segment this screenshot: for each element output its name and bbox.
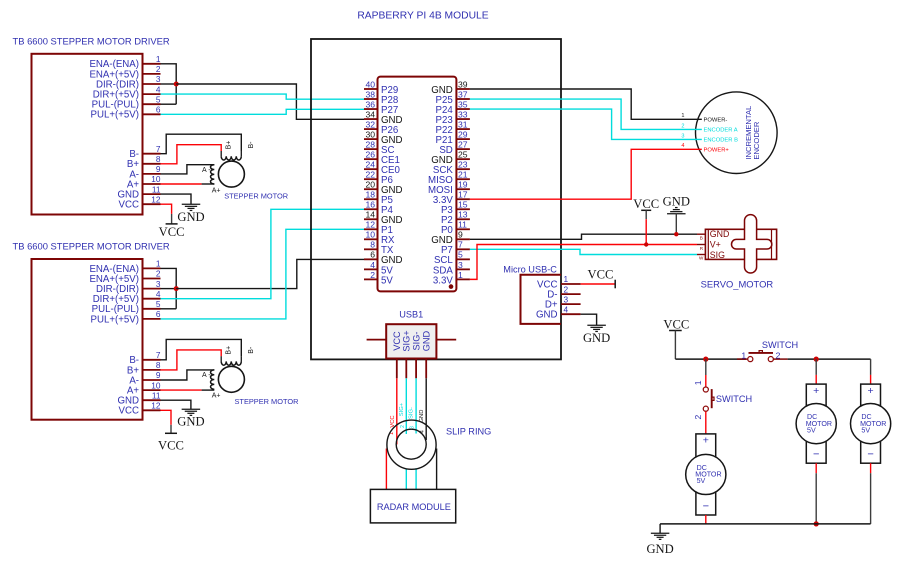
svg-text:26: 26	[365, 150, 375, 160]
svg-text:8: 8	[156, 360, 161, 370]
svg-text:VCC: VCC	[633, 197, 659, 211]
svg-text:3: 3	[156, 279, 161, 289]
svg-text:4: 4	[370, 260, 375, 270]
power VCC symbol below driver2	[158, 433, 184, 452]
svg-text:SIG: SIG	[710, 250, 725, 260]
TB 6600 stepper motor driver U2 body	[32, 54, 143, 215]
svg-text:22: 22	[365, 170, 375, 180]
svg-text:RADAR MODULE: RADAR MODULE	[377, 502, 451, 512]
svg-text:2: 2	[693, 414, 703, 419]
svg-text:1: 1	[741, 350, 746, 360]
junction driver1 pin3	[174, 82, 179, 87]
DC motor M2 5V	[796, 384, 836, 463]
svg-text:VCC: VCC	[119, 200, 139, 211]
svg-text:2: 2	[681, 123, 684, 129]
ground symbol above servo (inverted earth)	[663, 195, 690, 235]
svg-text:9: 9	[458, 230, 463, 240]
wire slip ring to radar module VCC (red)	[385, 449, 387, 490]
svg-text:9: 9	[156, 164, 161, 174]
wire driver2 pin3 to Pi chip pin6 GND	[176, 259, 364, 288]
wire down to motor2	[815, 359, 817, 384]
svg-text:+: +	[813, 385, 819, 397]
svg-text:13: 13	[458, 210, 468, 220]
svg-text:VCC: VCC	[587, 268, 613, 282]
svg-text:5: 5	[156, 94, 161, 104]
svg-text:ENCODER B: ENCODER B	[704, 138, 739, 144]
switch SW1 push button	[737, 340, 798, 362]
svg-text:TB 6600 STEPPER MOTOR DRIVER: TB 6600 STEPPER MOTOR DRIVER	[13, 241, 170, 252]
wire stepper B coil feeds	[161, 339, 242, 370]
svg-text:32: 32	[365, 119, 375, 129]
svg-text:+: +	[703, 435, 709, 447]
inductor coil A of stepper motor	[202, 370, 220, 400]
svg-text:24: 24	[365, 160, 375, 170]
incremental encoder body circle	[696, 92, 778, 174]
svg-text:5V: 5V	[697, 477, 706, 485]
junction driver2 pin3	[174, 286, 179, 291]
svg-text:GND: GND	[710, 229, 730, 239]
svg-text:1: 1	[156, 259, 161, 269]
svg-text:TB 6600 STEPPER MOTOR DRIVER: TB 6600 STEPPER MOTOR DRIVER	[13, 36, 170, 47]
svg-text:ENCODER A: ENCODER A	[704, 128, 738, 134]
wire driver2 pins 1-3-5 bus	[161, 268, 177, 308]
wire driver1 pin11 to ground	[161, 194, 192, 204]
svg-text:ENCODER: ENCODER	[752, 121, 761, 159]
svg-text:21: 21	[458, 170, 468, 180]
svg-text:VCC: VCC	[159, 225, 185, 239]
svg-text:GND: GND	[583, 331, 610, 345]
svg-text:GND: GND	[536, 310, 558, 321]
raspberry pi 4B module outer box	[311, 39, 561, 359]
switch SW2 push button (vertical)	[693, 380, 752, 419]
power VCC symbol top of motor circuit	[663, 318, 689, 359]
svg-text:SWITCH: SWITCH	[716, 394, 752, 404]
svg-text:23: 23	[458, 160, 468, 170]
svg-text:7: 7	[156, 350, 161, 360]
power VCC symbol above servo	[633, 197, 659, 244]
micro USB-C connector body	[521, 275, 562, 324]
svg-text:SERVO_MOTOR: SERVO_MOTOR	[701, 279, 774, 290]
svg-text:15: 15	[458, 200, 468, 210]
svg-text:POWER-: POWER-	[704, 118, 728, 124]
svg-text:7: 7	[458, 240, 463, 250]
wire micro USB-C pin4 to ground	[581, 314, 597, 325]
svg-text:VCC: VCC	[392, 331, 402, 351]
stepper motor rotor circle	[218, 161, 244, 187]
wire driver2 pin12 to VCC	[161, 410, 172, 433]
svg-text:39: 39	[458, 79, 468, 89]
svg-text:GND: GND	[646, 542, 673, 556]
svg-text:4: 4	[564, 304, 569, 314]
svg-text:POWER+: POWER+	[704, 148, 730, 154]
radar module box	[370, 489, 455, 523]
junction switch SW2 branch	[703, 357, 708, 362]
svg-text:B-: B-	[248, 141, 255, 149]
svg-text:1: 1	[564, 274, 569, 284]
svg-text:11: 11	[152, 184, 161, 194]
svg-text:Micro USB-C: Micro USB-C	[503, 265, 557, 275]
svg-text:B: B	[700, 236, 703, 241]
svg-text:1: 1	[458, 270, 463, 280]
svg-text:7: 7	[156, 144, 161, 154]
svg-text:19: 19	[458, 180, 468, 190]
wire slip ring to radar module GND (black)	[436, 449, 438, 490]
svg-text:10: 10	[151, 380, 161, 390]
micro USB-C pins and labels	[536, 274, 581, 320]
svg-text:6: 6	[156, 309, 161, 319]
svg-text:2: 2	[776, 350, 781, 360]
svg-text:B-: B-	[248, 346, 255, 354]
wire driver1 pin4 to Pi chip pin38 P28 (cyan)	[161, 94, 365, 99]
wire stepper A coil feeds	[161, 370, 215, 390]
wire chip pin1 3.3V to servo V+ (red)	[470, 245, 697, 280]
svg-text:−: −	[867, 449, 873, 461]
junction servo GND wire	[674, 232, 678, 236]
svg-text:USB1: USB1	[399, 309, 423, 319]
ground symbol bottom left of motor circuit	[646, 533, 673, 556]
wire driver1 pins 1-3-5 bus	[161, 64, 177, 104]
wire chip pin7 P7 to servo SIG (cyan)	[470, 249, 697, 254]
power VCC symbol right of micro USB-C	[587, 268, 615, 289]
svg-text:5V: 5V	[861, 426, 870, 434]
wire chip pin9 GND to servo GND	[470, 234, 697, 239]
svg-text:STEPPER MOTOR: STEPPER MOTOR	[235, 397, 299, 406]
wire VCC bus to switch SW1	[675, 358, 746, 360]
slip ring inner circle	[396, 429, 426, 459]
svg-text:10: 10	[365, 230, 375, 240]
svg-text:W: W	[699, 256, 704, 261]
chip U1 pins with numbers and labels	[364, 79, 470, 286]
svg-text:GND: GND	[419, 410, 425, 423]
encoder pin numbers and pin labels	[681, 113, 738, 153]
wire driver1 pin6 to Pi chip pin36 P27 (cyan)	[161, 109, 365, 114]
wire slip ring to radar module SIG- (cyan)	[415, 468, 417, 489]
DC motor M1 5V	[686, 434, 726, 515]
svg-text:30: 30	[365, 130, 375, 140]
svg-text:20: 20	[365, 180, 375, 190]
svg-text:28: 28	[365, 140, 375, 150]
svg-text:35: 35	[458, 99, 468, 109]
raspberry pi chip U1 body	[378, 77, 457, 292]
svg-text:B+: B+	[226, 346, 233, 355]
svg-text:8: 8	[156, 154, 161, 164]
svg-text:6: 6	[156, 105, 161, 115]
svg-text:16: 16	[365, 200, 375, 210]
svg-text:25: 25	[458, 150, 468, 160]
svg-text:40: 40	[365, 79, 375, 89]
svg-text:SLIP RING: SLIP RING	[446, 426, 491, 436]
driver U3 pins 1-12 with numbers and labels	[89, 259, 160, 417]
svg-text:GND: GND	[177, 210, 204, 224]
power VCC symbol below driver1	[159, 224, 185, 239]
wire micro USB-C pin1 to VCC	[581, 283, 616, 285]
wire USB1 SIG- down to slip ring (cyan)	[415, 378, 417, 433]
stepper motor rotor circle	[218, 366, 244, 392]
encoder rotated name INCREMENTAL ENCODER	[744, 106, 761, 160]
svg-text:8: 8	[370, 240, 375, 250]
wire slip ring to radar module SIG+ (cyan)	[405, 469, 407, 490]
svg-text:3: 3	[458, 260, 463, 270]
ground symbol below driver2	[177, 409, 204, 428]
svg-text:18: 18	[365, 190, 375, 200]
wire down to motor3	[870, 359, 872, 384]
USB1 connector body	[386, 324, 436, 358]
inductor coil B of stepper motor	[221, 141, 255, 160]
ground symbol below micro USB-C	[583, 325, 610, 345]
wire USB1 SIG+ down to slip ring (cyan)	[405, 378, 407, 434]
svg-text:−: −	[703, 501, 709, 513]
pin 1 marker dot inside chip	[449, 284, 454, 289]
svg-text:1: 1	[681, 113, 684, 119]
svg-text:STEPPER MOTOR: STEPPER MOTOR	[224, 192, 288, 201]
wire motor1 to ground bus	[705, 515, 707, 524]
servo pin stubs and labels GND V+ SIG	[697, 229, 729, 261]
slip ring wire labels VCC SIG+ SIG- GND and pin numbers	[389, 402, 426, 435]
svg-text:A -: A -	[202, 167, 211, 174]
DC motor M3 5V	[851, 384, 891, 463]
servo motor horn cross	[731, 215, 771, 273]
svg-text:12: 12	[151, 401, 161, 411]
wire driver1 pin12 to VCC	[161, 204, 172, 224]
svg-text:38: 38	[365, 89, 375, 99]
svg-text:5V: 5V	[381, 275, 393, 286]
wire driver1 pin3 to Pi chip pin34 GND	[176, 84, 364, 119]
svg-text:11: 11	[152, 390, 161, 400]
wire stepper B coil feeds	[161, 134, 242, 164]
USB1 pins and rotated labels	[367, 330, 457, 378]
wire switch SW1 to motor branches	[788, 358, 871, 360]
servo motor body	[705, 229, 776, 259]
svg-text:37: 37	[458, 89, 468, 99]
svg-text:SIG-: SIG-	[409, 407, 415, 419]
svg-text:3.3V: 3.3V	[433, 275, 453, 286]
driver U2 pins 1-12 with numbers and labels	[89, 54, 160, 211]
junction motor2 branch	[814, 357, 819, 362]
svg-text:12: 12	[151, 194, 161, 204]
junction servo V+ / VCC	[644, 242, 648, 246]
svg-text:VCC: VCC	[119, 406, 139, 417]
svg-text:B+: B+	[226, 141, 233, 150]
svg-text:PUL+(+5V): PUL+(+5V)	[91, 314, 139, 325]
svg-text:17: 17	[458, 190, 468, 200]
svg-text:SIG+: SIG+	[399, 402, 405, 416]
wire switch SW2 to motor1	[705, 411, 707, 434]
wire motor3 to ground bus	[870, 463, 872, 524]
svg-text:36: 36	[365, 99, 375, 109]
inductor coil B of stepper motor	[221, 346, 255, 365]
svg-text:PUL+(+5V): PUL+(+5V)	[91, 110, 139, 121]
svg-text:1: 1	[156, 54, 161, 64]
svg-text:GND: GND	[663, 195, 690, 209]
svg-text:VCC: VCC	[158, 439, 184, 453]
svg-text:+: +	[868, 385, 874, 397]
svg-text:SIG-: SIG-	[411, 332, 421, 351]
svg-text:SIG+: SIG+	[402, 330, 412, 351]
junction motor2 ground	[814, 521, 819, 526]
svg-text:14: 14	[365, 210, 375, 220]
svg-text:10: 10	[151, 174, 161, 184]
svg-text:A -: A -	[202, 372, 211, 379]
wire chip pin35 P24 to encoder ENCODER B (cyan)	[470, 109, 702, 139]
svg-text:9: 9	[156, 370, 161, 380]
svg-text:2: 2	[400, 425, 406, 428]
TB 6600 stepper motor driver U3 body	[32, 259, 143, 420]
svg-text:A+: A+	[212, 187, 221, 194]
wire driver2 pin4 to Pi chip pin16 P4 (cyan)	[161, 209, 365, 298]
svg-text:6: 6	[370, 250, 375, 260]
svg-text:27: 27	[458, 140, 468, 150]
svg-text:4: 4	[681, 143, 684, 149]
wire stepper A coil feeds	[161, 165, 215, 184]
svg-text:11: 11	[458, 220, 467, 230]
svg-text:3: 3	[564, 294, 569, 304]
svg-text:34: 34	[365, 109, 375, 119]
svg-text:A+: A+	[212, 393, 221, 400]
svg-text:29: 29	[458, 130, 468, 140]
svg-text:RAPBERRY PI 4B MODULE: RAPBERRY PI 4B MODULE	[357, 11, 488, 22]
svg-text:5: 5	[156, 299, 161, 309]
wire driver2 pin11 to ground	[161, 400, 191, 409]
svg-text:3: 3	[156, 74, 161, 84]
slip ring outer circle	[387, 420, 436, 469]
svg-text:5: 5	[458, 250, 463, 260]
svg-text:−: −	[813, 449, 819, 461]
wire motor2 to ground bus	[815, 463, 817, 524]
svg-text:2: 2	[564, 284, 569, 294]
svg-text:2: 2	[156, 269, 161, 279]
svg-text:1: 1	[693, 380, 703, 385]
svg-text:4: 4	[156, 84, 161, 94]
svg-text:4: 4	[156, 289, 161, 299]
svg-text:33: 33	[458, 109, 468, 119]
svg-text:31: 31	[458, 119, 468, 129]
svg-text:5V: 5V	[807, 426, 816, 434]
ground symbol below driver1	[177, 204, 204, 224]
svg-text:12: 12	[365, 220, 375, 230]
inductor coil A of stepper motor	[202, 165, 220, 195]
wire USB1 VCC down to slip ring (red)	[396, 378, 398, 444]
wire chip pin39 GND to encoder POWER-	[470, 89, 702, 119]
wire chip pin17 3.3V to encoder POWER+ (red)	[470, 149, 702, 199]
wire USB1 GND down to slip ring (black)	[425, 378, 427, 440]
wire chip pin37 P25 to encoder ENCODER A (cyan)	[470, 99, 702, 129]
svg-text:VCC: VCC	[663, 318, 689, 332]
svg-text:3: 3	[681, 133, 684, 139]
svg-text:V+: V+	[710, 240, 721, 250]
wire down to switch SW2	[705, 359, 707, 387]
wire driver2 pin6 to Pi chip pin12 P1 (cyan)	[161, 229, 365, 319]
svg-text:2: 2	[370, 270, 375, 280]
svg-text:GND: GND	[422, 330, 432, 351]
svg-text:2: 2	[156, 64, 161, 74]
svg-text:GND: GND	[177, 415, 204, 429]
svg-text:SWITCH: SWITCH	[762, 340, 798, 350]
ground bus wire bottom	[660, 524, 871, 533]
